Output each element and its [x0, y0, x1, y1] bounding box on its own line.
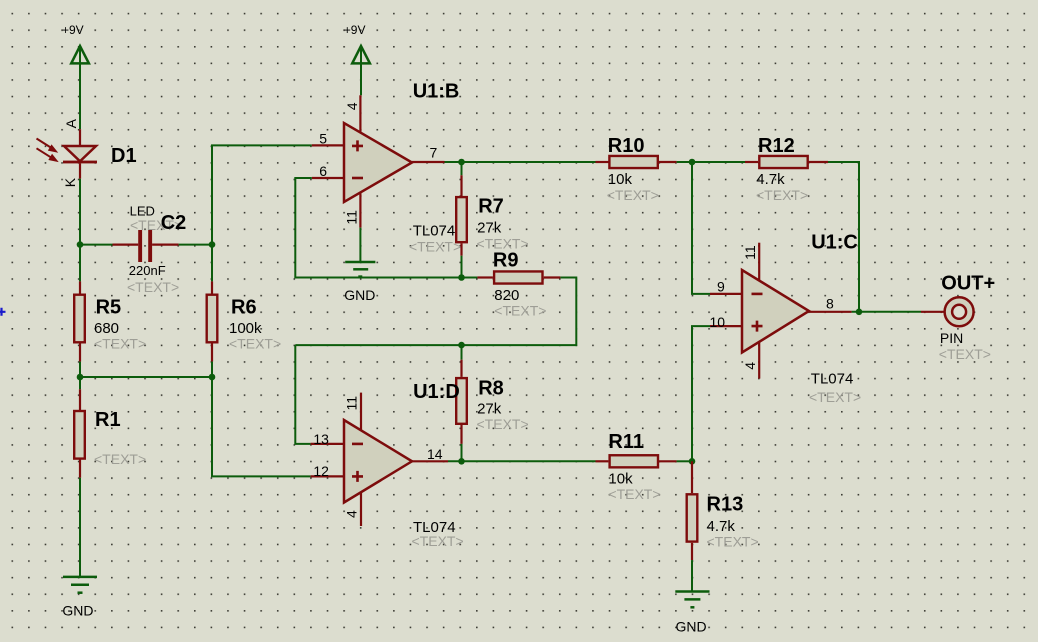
svg-text:<TEXT>: <TEXT>	[412, 533, 464, 549]
wire R6 bottom to junction row	[211, 362, 213, 377]
svg-text:<TEXT>: <TEXT>	[94, 335, 146, 351]
wire node D to pin 12	[212, 377, 311, 476]
svg-text:A: A	[63, 118, 79, 128]
wire node J down to pin 9	[692, 162, 710, 294]
wire +9V to D1 anode	[79, 46, 81, 129]
svg-text:GND: GND	[62, 603, 93, 619]
svg-text:10k: 10k	[608, 471, 633, 488]
resistor R11	[596, 455, 693, 467]
svg-text:<TEXT>: <TEXT>	[809, 389, 861, 405]
svg-text:<TEXT>: <TEXT>	[939, 346, 991, 362]
svg-text:R11: R11	[608, 431, 644, 453]
wire output U1:C	[852, 311, 921, 313]
resistor R13	[687, 461, 698, 591]
node A (junction D1/C2/R5)	[77, 241, 84, 248]
svg-text:+9V: +9V	[62, 23, 84, 37]
svg-text:U1:C: U1:C	[811, 232, 858, 254]
svg-text:<TEXT>: <TEXT>	[127, 279, 179, 295]
svg-text:C2: C2	[161, 212, 187, 234]
svg-text:13: 13	[313, 431, 329, 447]
power +9V terminal (U1:B)	[344, 23, 370, 63]
svg-text:11: 11	[742, 245, 758, 260]
wire R1 to ground	[79, 478, 81, 577]
node J (junction R10/R12/pin9 riser)	[689, 159, 696, 166]
wire C2 to node B	[179, 244, 212, 246]
svg-text:GND: GND	[344, 287, 375, 303]
svg-text:4.7k: 4.7k	[707, 518, 736, 535]
resistor R1	[74, 389, 85, 478]
svg-text:<TEXT>: <TEXT>	[707, 534, 759, 550]
node I (junction R11/R13/pin10 riser)	[689, 458, 696, 465]
svg-text:220nF: 220nF	[129, 263, 166, 278]
svg-text:10k: 10k	[608, 171, 633, 188]
wire node to C2	[80, 244, 113, 246]
svg-text:<TEXT>: <TEXT>	[477, 416, 529, 432]
resistor R10	[596, 156, 693, 168]
node K (junction R12 feedback / output)	[856, 309, 863, 316]
photodiode D1	[37, 129, 98, 179]
resistor R5	[74, 245, 85, 362]
svg-text:D1: D1	[111, 145, 137, 167]
svg-text:12: 12	[313, 463, 329, 479]
svg-text:K: K	[62, 177, 78, 187]
resistor R7	[456, 162, 467, 278]
svg-text:<TEXT>: <TEXT>	[409, 239, 461, 255]
svg-text:R6: R6	[231, 297, 257, 319]
junction row wire	[80, 376, 212, 378]
svg-text:8: 8	[826, 296, 834, 312]
wire R12 to output node	[828, 162, 859, 312]
svg-text:<TEXT>: <TEXT>	[607, 187, 659, 203]
node H (output U1:D / R8)	[458, 458, 465, 465]
wire node I up to pin 10	[692, 326, 710, 461]
wire to pin 13	[295, 345, 310, 444]
svg-text:<TEXT>: <TEXT>	[94, 451, 146, 467]
resistor R12	[692, 156, 828, 168]
wire U1:D output	[448, 460, 596, 462]
svg-text:R13: R13	[707, 494, 744, 516]
svg-text:OUT+: OUT+	[941, 273, 995, 295]
svg-text:R8: R8	[478, 378, 504, 400]
wire D1 cathode to node	[79, 179, 81, 245]
svg-text:11: 11	[344, 210, 360, 225]
node B (junction C2/R6/pin5 riser)	[209, 241, 216, 248]
wire R5 bottom to junction row	[79, 362, 81, 390]
node F (junction R7/R9/pin6)	[458, 274, 465, 281]
svg-text:R7: R7	[478, 196, 504, 218]
resistor R6	[207, 245, 218, 362]
svg-text:11: 11	[344, 396, 360, 411]
op-amp U1:D	[311, 393, 448, 526]
svg-text:27k: 27k	[477, 220, 502, 237]
svg-text:7: 7	[430, 144, 438, 160]
svg-text:4: 4	[344, 510, 360, 518]
svg-text:U1:D: U1:D	[413, 381, 460, 403]
svg-text:R5: R5	[96, 297, 122, 319]
svg-text:<TEXT>: <TEXT>	[229, 335, 281, 351]
wire R9 to pin13 net	[295, 278, 576, 346]
svg-text:4: 4	[344, 102, 360, 110]
node C (junction R5/R1)	[77, 374, 84, 381]
svg-text:R12: R12	[758, 135, 795, 157]
node E (output U1:B / R7 / R10)	[458, 159, 465, 166]
svg-text:10: 10	[710, 314, 726, 330]
wire +9V to pin 4	[360, 46, 362, 95]
ground (left)	[63, 577, 97, 593]
op-amp U1:B	[312, 95, 445, 227]
svg-text:TL074: TL074	[811, 371, 854, 388]
svg-text:PIN: PIN	[940, 330, 963, 346]
svg-text:TL074: TL074	[413, 223, 456, 240]
ground (R13)	[675, 592, 709, 608]
power +9V terminal (left)	[62, 23, 89, 63]
wire node B up and to pin 5	[212, 145, 312, 244]
svg-text:<TEXT>: <TEXT>	[494, 303, 546, 319]
svg-text:R10: R10	[608, 135, 645, 157]
svg-text:5: 5	[319, 131, 327, 147]
wire U1:B output	[445, 161, 596, 163]
svg-text:<TEXT>: <TEXT>	[756, 187, 808, 203]
svg-text:R1: R1	[95, 409, 121, 431]
capacitor C2	[113, 230, 179, 262]
resistor R9	[462, 271, 561, 283]
svg-text:R9: R9	[493, 250, 519, 272]
svg-text:9: 9	[717, 279, 725, 295]
wire pin 11 to ground	[359, 228, 361, 262]
wire pin 6 feedback	[295, 178, 461, 278]
svg-text:4.7k: 4.7k	[756, 171, 785, 188]
svg-text:14: 14	[427, 446, 443, 462]
svg-text:GND: GND	[676, 619, 707, 635]
op-amp U1:C	[710, 243, 852, 379]
svg-text:<TEXT>: <TEXT>	[608, 486, 660, 502]
node G (junction R8 top)	[458, 342, 465, 349]
svg-text:4: 4	[742, 362, 758, 370]
node D (junction R6/descender)	[209, 374, 216, 381]
output pin OUT+	[921, 297, 974, 326]
svg-text:+9V: +9V	[344, 23, 366, 37]
svg-text:U1:B: U1:B	[413, 81, 460, 103]
svg-text:820: 820	[494, 287, 519, 304]
resistor R8	[456, 345, 467, 461]
svg-text:6: 6	[319, 163, 327, 179]
ground (U1:B)	[345, 262, 375, 277]
origin marker (blue)	[0, 308, 6, 316]
